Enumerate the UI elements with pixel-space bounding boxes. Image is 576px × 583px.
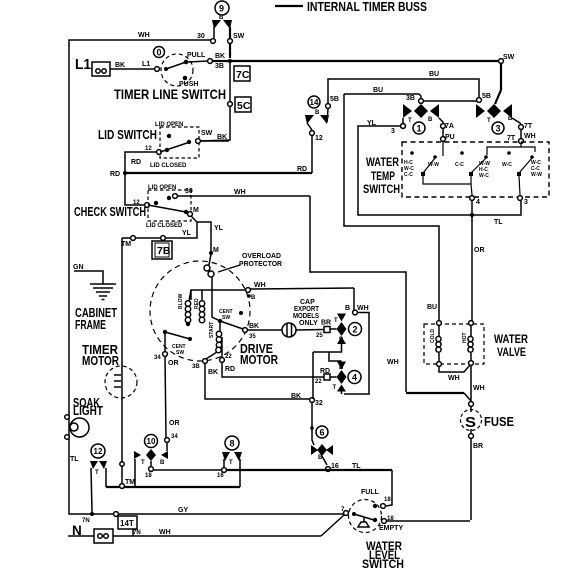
svg-text:18: 18 [145, 473, 152, 479]
svg-text:6: 6 [320, 428, 325, 438]
svg-text:OR: OR [474, 247, 485, 254]
svg-text:5B: 5B [330, 96, 339, 103]
svg-text:7T: 7T [524, 123, 533, 130]
svg-text:7C: 7C [236, 69, 250, 81]
svg-text:BU: BU [373, 87, 383, 94]
svg-text:W-W: W-W [531, 172, 542, 178]
svg-text:B: B [339, 365, 344, 371]
svg-text:22: 22 [225, 354, 232, 360]
svg-text:WH: WH [473, 385, 485, 392]
svg-text:WH: WH [448, 375, 460, 382]
svg-text:MOTOR: MOTOR [82, 354, 119, 368]
svg-text:C-C: C-C [404, 172, 413, 178]
svg-text:B: B [315, 110, 320, 116]
svg-text:BR: BR [321, 320, 331, 327]
svg-text:BU: BU [429, 71, 439, 78]
svg-text:GY: GY [178, 507, 188, 514]
svg-text:SW: SW [503, 54, 515, 61]
svg-text:2: 2 [353, 325, 358, 335]
svg-text:HOT: HOT [462, 332, 468, 343]
svg-text:OVERLOAD: OVERLOAD [242, 253, 281, 260]
svg-text:START: START [209, 322, 215, 338]
svg-text:B: B [428, 117, 433, 123]
svg-text:34: 34 [171, 434, 178, 440]
svg-text:VALVE: VALVE [497, 347, 526, 359]
svg-text:B: B [160, 460, 165, 466]
svg-text:WATER: WATER [494, 334, 529, 346]
svg-text:WH: WH [387, 359, 399, 366]
svg-text:BK: BK [215, 53, 225, 60]
svg-text:WH: WH [159, 529, 171, 536]
svg-text:C-C: C-C [455, 162, 464, 168]
svg-text:BK: BK [208, 369, 218, 376]
svg-text:7N: 7N [82, 518, 90, 524]
svg-text:T: T [229, 460, 233, 466]
svg-text:RED: RED [194, 298, 200, 309]
svg-text:COLD: COLD [430, 328, 436, 343]
svg-text:WH: WH [524, 133, 536, 140]
svg-text:T: T [487, 118, 491, 124]
svg-text:4: 4 [476, 199, 480, 206]
svg-text:LIGHT: LIGHT [73, 404, 103, 418]
svg-text:PU: PU [445, 134, 455, 141]
svg-text:M: M [213, 247, 219, 254]
svg-text:BK: BK [291, 393, 301, 400]
svg-text:LID CLOSED: LID CLOSED [146, 223, 183, 229]
svg-text:GN: GN [73, 264, 84, 271]
svg-text:3: 3 [391, 128, 395, 135]
svg-text:WH: WH [138, 32, 150, 39]
svg-text:7N: 7N [133, 530, 141, 536]
svg-text:9: 9 [219, 4, 224, 14]
svg-text:4: 4 [352, 373, 357, 383]
svg-text:WH: WH [234, 189, 246, 196]
svg-text:EMPTY: EMPTY [379, 525, 403, 532]
svg-text:SW: SW [201, 130, 213, 137]
svg-text:PROTECTOR: PROTECTOR [239, 261, 282, 268]
svg-text:RD: RD [297, 166, 307, 173]
svg-text:MOTOR: MOTOR [240, 353, 278, 367]
svg-text:YL: YL [182, 230, 192, 237]
svg-text:TIMER LINE SWITCH: TIMER LINE SWITCH [114, 87, 226, 102]
svg-text:SW: SW [233, 33, 245, 40]
svg-text:S: S [465, 414, 476, 431]
svg-text:3: 3 [496, 124, 501, 134]
svg-text:14: 14 [310, 98, 319, 107]
svg-text:WH: WH [254, 282, 266, 289]
svg-text:INTERNAL TIMER BUSS: INTERNAL TIMER BUSS [307, 0, 427, 14]
svg-text:34: 34 [154, 355, 161, 361]
svg-text:RD: RD [131, 159, 141, 166]
svg-text:RD: RD [225, 366, 235, 373]
svg-text:TL: TL [352, 463, 361, 470]
svg-text:1: 1 [417, 124, 422, 134]
svg-text:LID OPEN: LID OPEN [155, 122, 183, 128]
svg-text:CHECK SWITCH: CHECK SWITCH [74, 205, 146, 219]
svg-text:BK: BK [217, 134, 227, 141]
svg-text:CAP: CAP [300, 299, 315, 306]
svg-text:LID SWITCH: LID SWITCH [98, 128, 157, 142]
svg-text:TL: TL [494, 219, 503, 226]
svg-text:BR: BR [473, 443, 483, 450]
svg-text:10: 10 [147, 437, 156, 446]
svg-text:BU: BU [427, 304, 437, 311]
svg-text:25: 25 [316, 333, 323, 339]
svg-text:L1: L1 [142, 61, 150, 68]
svg-text:M: M [193, 207, 199, 214]
svg-text:LID CLOSED: LID CLOSED [150, 163, 187, 169]
svg-text:YL: YL [367, 120, 377, 127]
svg-text:ONLY: ONLY [299, 320, 318, 327]
svg-text:LID OPEN: LID OPEN [148, 185, 176, 191]
svg-text:T: T [141, 460, 145, 466]
svg-text:16: 16 [331, 463, 339, 470]
svg-text:30: 30 [185, 188, 193, 195]
svg-text:B: B [251, 295, 256, 301]
svg-text:7T: 7T [507, 135, 516, 142]
svg-text:3B: 3B [215, 63, 224, 70]
svg-text:12: 12 [315, 135, 323, 142]
svg-text:SW: SW [222, 315, 230, 321]
svg-text:TL: TL [70, 456, 79, 463]
svg-text:FRAME: FRAME [75, 318, 106, 332]
svg-text:FUSE: FUSE [484, 415, 514, 429]
svg-text:BK: BK [115, 62, 125, 69]
svg-text:SW: SW [176, 350, 184, 356]
svg-text:35: 35 [249, 334, 256, 340]
svg-text:T: T [333, 385, 337, 391]
svg-text:3: 3 [524, 199, 528, 206]
svg-text:7A: 7A [445, 123, 454, 130]
svg-text:5C: 5C [237, 100, 251, 112]
svg-text:OR: OR [168, 360, 179, 367]
svg-text:L1: L1 [75, 56, 91, 73]
svg-text:B: B [508, 116, 513, 122]
svg-text:8: 8 [230, 439, 235, 449]
svg-text:30: 30 [197, 33, 205, 40]
svg-text:W-C: W-C [479, 173, 489, 179]
svg-text:0: 0 [157, 48, 162, 58]
svg-text:B: B [339, 337, 344, 343]
svg-text:7B: 7B [157, 245, 171, 257]
svg-text:W-C: W-C [502, 162, 512, 168]
svg-text:PULL: PULL [187, 52, 206, 59]
svg-text:T: T [95, 470, 99, 476]
svg-text:T: T [334, 318, 338, 324]
svg-text:16: 16 [217, 473, 224, 479]
svg-text:14T: 14T [120, 519, 134, 528]
svg-text:18: 18 [384, 497, 391, 503]
svg-text:B: B [345, 305, 350, 312]
svg-text:12: 12 [145, 146, 152, 152]
svg-text:SWITCH: SWITCH [363, 184, 400, 196]
svg-text:RD: RD [320, 368, 330, 375]
svg-text:OR: OR [169, 420, 180, 427]
svg-text:WH: WH [357, 305, 369, 312]
svg-text:5B: 5B [482, 93, 491, 100]
svg-text:TM: TM [125, 479, 135, 486]
svg-text:BK: BK [249, 323, 259, 330]
svg-text:TEMP: TEMP [371, 171, 395, 183]
svg-text:W-W: W-W [428, 162, 439, 168]
svg-text:FULL: FULL [361, 489, 380, 496]
svg-text:3B: 3B [192, 364, 200, 370]
svg-text:MODELS: MODELS [293, 313, 319, 320]
svg-text:EXPORT: EXPORT [294, 306, 320, 313]
svg-text:BLOW: BLOW [178, 293, 184, 309]
svg-text:YL: YL [214, 225, 224, 232]
svg-text:3B: 3B [406, 95, 415, 102]
svg-text:22: 22 [315, 379, 322, 385]
svg-text:32: 32 [315, 400, 323, 407]
svg-text:T: T [408, 118, 412, 124]
svg-text:12: 12 [94, 447, 103, 456]
svg-text:RD: RD [110, 171, 120, 178]
svg-text:SWITCH: SWITCH [362, 559, 404, 571]
svg-text:WATER: WATER [366, 157, 400, 169]
